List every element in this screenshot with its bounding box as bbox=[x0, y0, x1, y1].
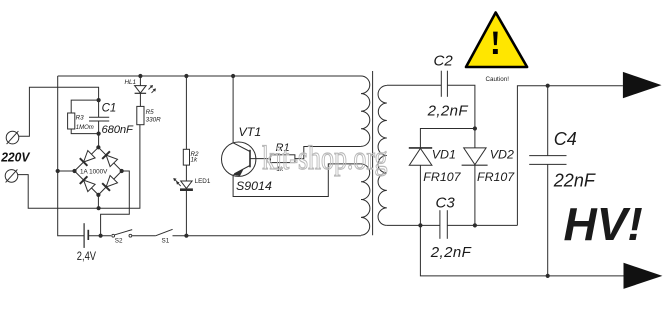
svg-text:2,2nF: 2,2nF bbox=[427, 102, 469, 119]
switch S2 bbox=[112, 234, 115, 237]
svg-text:330R: 330R bbox=[146, 117, 162, 124]
svg-text:1A 1000V: 1A 1000V bbox=[80, 169, 108, 176]
resistor R1 bbox=[270, 155, 295, 163]
svg-text:FR107: FR107 bbox=[477, 170, 515, 184]
wire battery to S2 bbox=[88, 235, 111, 237]
svg-text:C1: C1 bbox=[102, 102, 117, 114]
switch S1 bbox=[156, 229, 173, 235]
wire S2 to S1 bbox=[132, 235, 156, 237]
node top rail R2 bbox=[184, 74, 188, 78]
wire R2 top stub bbox=[185, 76, 187, 149]
wire multiplier to HV top bbox=[517, 86, 623, 226]
svg-text:2,2nF: 2,2nF bbox=[430, 244, 472, 261]
transformer T1 core bbox=[372, 71, 374, 235]
wire HL1 to R5 bbox=[139, 93, 141, 106]
wire terminal X1 to C1 top node bbox=[19, 87, 99, 136]
wire R1 to primary tap bbox=[295, 147, 361, 159]
svg-text:LED1: LED1 bbox=[195, 178, 211, 185]
wire AC line to HL1 branch bbox=[99, 125, 140, 209]
node VD2 bottom bbox=[473, 223, 477, 227]
svg-text:VD2: VD2 bbox=[490, 148, 514, 162]
wire secondary top to C2 bbox=[387, 84, 442, 86]
resistor R2 bbox=[183, 149, 189, 165]
node A bbox=[473, 126, 477, 130]
node top rail HL1 bbox=[138, 74, 142, 78]
resistor R3 bbox=[68, 113, 75, 129]
svg-text:HV!: HV! bbox=[564, 198, 643, 250]
node LED1 bottom bbox=[184, 234, 188, 238]
diode bridge VD top-right bbox=[106, 155, 117, 167]
node bridge top bbox=[96, 145, 100, 149]
arrow output HV plus bbox=[623, 72, 662, 98]
capacitor C2 bbox=[440, 71, 442, 97]
transistor VT1 S9014 bbox=[222, 142, 256, 176]
caution sign bbox=[466, 13, 527, 68]
wire secondary bottom to node B bbox=[387, 224, 440, 226]
svg-text:1MOm: 1MOm bbox=[76, 125, 94, 131]
transformer T1 primary winding upper bbox=[361, 76, 370, 146]
node C1 top bbox=[97, 98, 101, 102]
node battery plus junction bbox=[99, 234, 103, 238]
wire bridge right to battery bbox=[101, 171, 130, 236]
svg-text:VD1: VD1 bbox=[432, 148, 456, 162]
svg-text:C2: C2 bbox=[434, 52, 454, 69]
node left-rail / bridge-left junction bbox=[56, 169, 60, 173]
wire bridge bottom stub bbox=[97, 195, 99, 208]
svg-text:2,4V: 2,4V bbox=[77, 249, 97, 263]
wire emitter bbox=[233, 164, 361, 197]
wire bridge diamond bbox=[75, 147, 122, 195]
wire R3 bottom bar bbox=[71, 129, 98, 134]
svg-text:1k: 1k bbox=[191, 157, 199, 164]
node bridge right bbox=[120, 169, 124, 173]
node C4 bottom bbox=[546, 274, 550, 278]
wire R3 top bar bbox=[71, 100, 98, 113]
transformer T1 secondary winding bbox=[378, 86, 387, 226]
svg-text:C4: C4 bbox=[554, 129, 577, 149]
wire LED1 to bottom rail bbox=[185, 190, 187, 236]
svg-text:kit-shop.org: kit-shop.org bbox=[262, 139, 387, 177]
svg-text:22nF: 22nF bbox=[553, 170, 596, 190]
wire base bbox=[250, 158, 270, 160]
node C4 top bbox=[546, 84, 550, 88]
diode VD2 FR107 bbox=[464, 148, 486, 165]
wire bottom rail bbox=[173, 235, 362, 237]
svg-text:HL1: HL1 bbox=[125, 79, 137, 86]
LED LED1 bbox=[181, 181, 192, 188]
svg-text:Caution!: Caution! bbox=[486, 76, 510, 83]
svg-text:S1: S1 bbox=[162, 238, 170, 245]
wire node A to VD1 bbox=[420, 129, 475, 149]
LED HL1 bbox=[135, 86, 147, 93]
node bridge bottom bbox=[96, 193, 100, 197]
battery GB1 2.4V bbox=[83, 223, 85, 248]
svg-text:C3: C3 bbox=[436, 195, 456, 212]
node C1 bottom bbox=[97, 132, 101, 136]
node bridge bottom / AC line bbox=[97, 206, 101, 210]
svg-text:S2: S2 bbox=[115, 238, 123, 245]
svg-text:220V: 220V bbox=[0, 150, 30, 165]
wire HL1 top stub bbox=[139, 76, 141, 86]
wire left rail bbox=[58, 76, 84, 236]
terminal X1 (220V top input) bbox=[6, 131, 19, 144]
svg-text:FR107: FR107 bbox=[423, 170, 461, 184]
capacitor C1 bbox=[89, 116, 109, 118]
svg-text:680nF: 680nF bbox=[102, 124, 135, 136]
node bridge left bbox=[72, 169, 76, 173]
svg-text:VT1: VT1 bbox=[239, 125, 262, 139]
terminal X2 (220V bottom input) bbox=[5, 170, 18, 183]
wire C3 to VD2 bottom bbox=[447, 224, 517, 226]
node B bbox=[418, 223, 422, 227]
wire R2 to LED1 bbox=[185, 165, 187, 181]
wire top rail bbox=[58, 75, 361, 77]
diode bridge VD bottom-right bbox=[106, 176, 117, 188]
capacitor C4 bbox=[547, 86, 549, 156]
transformer T1 primary winding lower bbox=[361, 164, 370, 235]
watermark kit-shop.org bbox=[262, 139, 387, 177]
node top rail collector bbox=[231, 74, 235, 78]
svg-text:S9014: S9014 bbox=[236, 179, 272, 193]
svg-text:R5: R5 bbox=[146, 109, 155, 116]
wire C2 to node A bbox=[447, 85, 475, 148]
wire collector bbox=[232, 76, 234, 143]
wire C1 top stub bbox=[98, 100, 100, 117]
arrow output HV minus bbox=[624, 263, 663, 289]
wire terminal X2 down to AC line bbox=[18, 175, 99, 209]
diode bridge VD top-left bbox=[84, 151, 96, 163]
diode bridge VD bottom-left bbox=[84, 180, 96, 192]
diode VD1 FR107 bbox=[409, 147, 432, 149]
svg-text:R3: R3 bbox=[76, 115, 85, 122]
wire node B to HV bottom bbox=[420, 225, 623, 276]
wire bridge left node bbox=[58, 170, 75, 172]
resistor R5 bbox=[137, 106, 144, 124]
capacitor C3 bbox=[439, 210, 441, 239]
wire C1 bottom stub bbox=[98, 121, 100, 147]
